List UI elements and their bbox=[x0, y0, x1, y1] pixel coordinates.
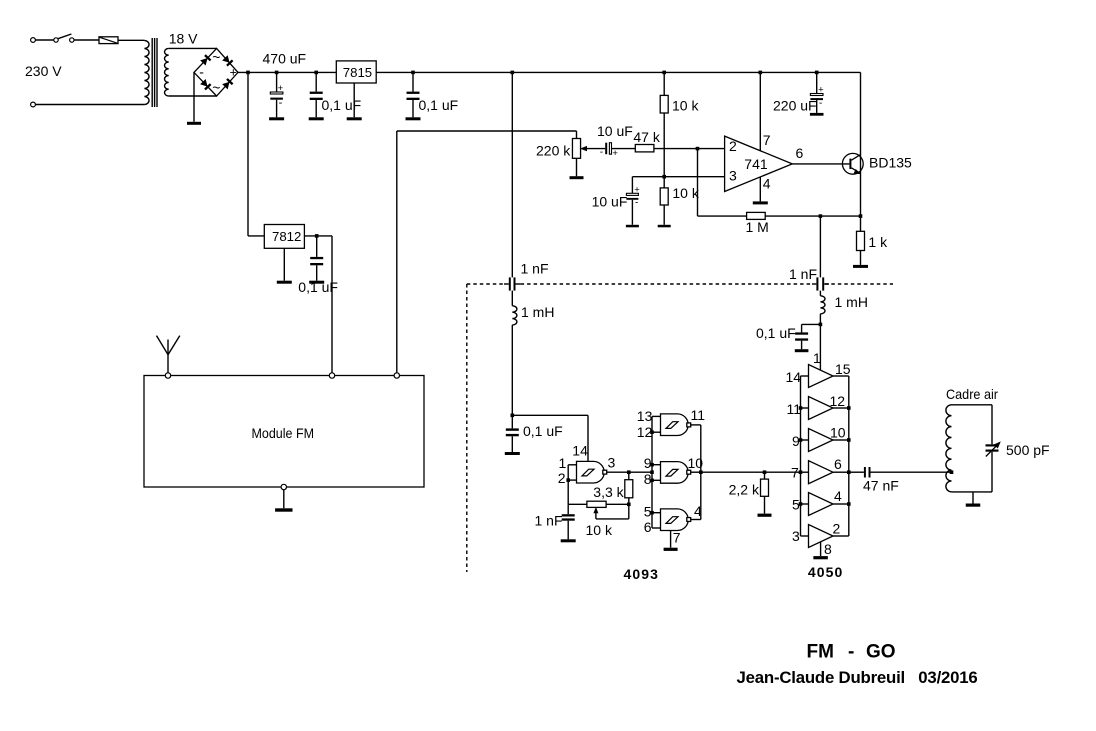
wire bbox=[606, 503, 629, 505]
ground bbox=[664, 548, 678, 551]
ground bbox=[505, 452, 520, 455]
wire 7812 out to Module FM bbox=[331, 236, 333, 373]
svg-text:-: - bbox=[819, 98, 822, 109]
wire bbox=[698, 215, 747, 217]
wire pin 1 stub bbox=[568, 464, 576, 466]
svg-text:+: + bbox=[634, 185, 640, 196]
resistor 2,2 k bbox=[761, 479, 769, 496]
node rail / C2 0,1uF bbox=[411, 71, 415, 75]
capacitor 0,1 uF (7812 out) bbox=[310, 236, 323, 281]
svg-text:8: 8 bbox=[644, 471, 652, 487]
terminal 230V bottom bbox=[31, 102, 36, 107]
wire 7812 ground pin bbox=[283, 248, 285, 280]
svg-text:4050: 4050 bbox=[808, 564, 844, 580]
buffer U2f 4050 bbox=[809, 525, 834, 548]
wire pin 7 ground bbox=[670, 531, 672, 548]
wire input stub buffer 1 bbox=[801, 375, 809, 377]
wire 7815 ground pin bbox=[353, 83, 355, 117]
ground bbox=[795, 349, 809, 352]
wire output stub buffer 2 bbox=[833, 407, 849, 409]
svg-text:1: 1 bbox=[559, 455, 567, 471]
wire input stub top gate 3 bbox=[652, 464, 661, 466]
svg-text:+: + bbox=[818, 85, 824, 96]
svg-text:0,1 uF: 0,1 uF bbox=[756, 325, 796, 341]
svg-text:1 nF: 1 nF bbox=[535, 513, 563, 529]
node pin3 divider bbox=[662, 175, 666, 179]
svg-text:9: 9 bbox=[792, 433, 800, 449]
wire bbox=[576, 158, 578, 176]
wire bbox=[663, 205, 665, 225]
op-amp 741 bbox=[725, 136, 793, 191]
wire varcap bottom bbox=[991, 452, 993, 492]
NAND gate U1c 4093 bbox=[661, 462, 691, 484]
wire bbox=[169, 47, 217, 49]
wire bbox=[860, 216, 862, 231]
transformer T1 core bbox=[152, 38, 157, 107]
ground bbox=[853, 265, 868, 268]
svg-text:4: 4 bbox=[694, 503, 702, 519]
ground bbox=[277, 281, 292, 284]
svg-text:1 nF: 1 nF bbox=[521, 261, 549, 277]
svg-text:0,1 uF: 0,1 uF bbox=[322, 97, 362, 113]
node 0,1uF tap bbox=[819, 323, 823, 327]
node rail / C 470uF bbox=[275, 71, 279, 75]
wire output stub buffer 5 bbox=[833, 503, 849, 505]
wire 47nF to cadre tap bbox=[871, 471, 952, 473]
ground bbox=[275, 508, 292, 511]
svg-text:7: 7 bbox=[763, 132, 771, 148]
node rail / 10k top bbox=[662, 71, 666, 75]
wire bbox=[576, 131, 578, 139]
wire output pin 11 bbox=[691, 424, 701, 426]
svg-text:2: 2 bbox=[558, 470, 566, 486]
wire bbox=[118, 39, 144, 41]
svg-text:GO: GO bbox=[866, 641, 896, 662]
svg-text:10: 10 bbox=[830, 425, 846, 441]
svg-text:+: + bbox=[230, 66, 237, 80]
NAND gate U1a 4093 bbox=[577, 461, 607, 483]
node rail / C1 0,1uF bbox=[314, 71, 318, 75]
wire rail to 10k bbox=[663, 72, 665, 95]
svg-text:5: 5 bbox=[792, 497, 800, 513]
svg-text:9: 9 bbox=[644, 455, 652, 471]
capacitor 1 nF feedthrough (right) bbox=[812, 277, 829, 290]
svg-text:10 k: 10 k bbox=[672, 97, 699, 113]
svg-text:Jean-Claude Dubreuil: Jean-Claude Dubreuil bbox=[737, 668, 906, 687]
wire 4050 input bus bbox=[800, 376, 802, 536]
capacitor 10 uF (series) bbox=[600, 143, 619, 160]
svg-text:12: 12 bbox=[830, 393, 846, 409]
ground bbox=[269, 117, 284, 120]
inductor 1 mH (right) bbox=[820, 296, 825, 314]
fuse F1 bbox=[99, 37, 118, 44]
svg-text:3,3 k: 3,3 k bbox=[593, 484, 624, 500]
svg-text:230 V: 230 V bbox=[25, 63, 62, 79]
svg-text:8: 8 bbox=[824, 541, 832, 557]
svg-text:0,1 uF: 0,1 uF bbox=[419, 97, 459, 113]
resistor 10 k (lower) bbox=[660, 188, 668, 205]
wire bbox=[35, 104, 144, 106]
wire bbox=[587, 415, 589, 461]
capacitor 220 uF bbox=[810, 72, 824, 113]
svg-text:~: ~ bbox=[212, 49, 220, 65]
node 4050 input bus bbox=[799, 406, 803, 410]
svg-text:7812: 7812 bbox=[272, 229, 301, 244]
ground bbox=[309, 281, 324, 284]
svg-text:4093: 4093 bbox=[624, 566, 660, 582]
wire wiper tie bbox=[596, 518, 629, 520]
node 4050 output bus bbox=[847, 438, 851, 442]
wire input stub buffer 2 bbox=[801, 407, 809, 409]
wire bbox=[628, 498, 630, 505]
buffer U2a 4050 bbox=[809, 365, 834, 388]
svg-text:1 M: 1 M bbox=[746, 219, 769, 235]
node 3,3k / 10k wiper bbox=[627, 503, 631, 507]
ground bbox=[758, 514, 772, 517]
wire input stub top gate 2 bbox=[652, 415, 661, 417]
wire pin 8 ground bbox=[820, 542, 822, 556]
shield dashed line middle bbox=[521, 283, 812, 285]
svg-text:10 k: 10 k bbox=[672, 185, 699, 201]
svg-text:14: 14 bbox=[786, 369, 802, 385]
node input bus bbox=[650, 479, 654, 483]
wire bbox=[628, 504, 630, 519]
svg-text:1 mH: 1 mH bbox=[835, 294, 868, 310]
switch S1 bbox=[54, 34, 74, 42]
shield dashed line left bbox=[467, 283, 504, 285]
inductor 1 mH (left) bbox=[512, 306, 517, 325]
node pin2 / feedback RC bbox=[566, 478, 570, 482]
diode D4 bridge bottom-right bbox=[222, 79, 233, 90]
svg-text:2,2 k: 2,2 k bbox=[729, 481, 760, 497]
node 2,2k bbox=[763, 470, 767, 474]
svg-text:6: 6 bbox=[834, 456, 842, 472]
wire input stub buffer 3 bbox=[801, 439, 809, 441]
svg-text:47 k: 47 k bbox=[633, 129, 660, 145]
terminal Module FM supply bbox=[329, 373, 334, 378]
wire bridge minus to ground bbox=[193, 72, 195, 121]
svg-text:6: 6 bbox=[644, 519, 652, 535]
ground bbox=[753, 201, 768, 204]
wire bbox=[628, 472, 630, 480]
wire bbox=[765, 215, 860, 217]
node 4050 output bus bbox=[847, 470, 851, 474]
svg-text:10 k: 10 k bbox=[586, 522, 613, 538]
svg-text:10 uF: 10 uF bbox=[592, 193, 628, 209]
capacitor 0,1 uF (rail #1) bbox=[310, 72, 323, 117]
svg-text:-: - bbox=[600, 147, 603, 158]
svg-text:220 uF: 220 uF bbox=[773, 98, 817, 114]
capacitor 47 nF bbox=[849, 467, 871, 478]
wire bbox=[169, 95, 217, 97]
capacitor 470 uF bbox=[270, 72, 283, 117]
node input bus bbox=[650, 511, 654, 515]
diode D1 bridge top-left bbox=[200, 55, 211, 66]
svg-text:1 k: 1 k bbox=[868, 234, 888, 250]
buffer U2d 4050 bbox=[809, 461, 834, 484]
wire input stub bottom gate 4 bbox=[652, 527, 661, 529]
trimmer 10 k bbox=[587, 501, 606, 519]
svg-text:FM: FM bbox=[807, 641, 834, 662]
buffer U2e 4050 bbox=[809, 493, 834, 516]
node rail / pin7 bbox=[759, 71, 763, 75]
terminal Module FM antenna bbox=[165, 373, 170, 378]
regulator 7812 bbox=[264, 225, 304, 249]
wire bbox=[612, 148, 636, 150]
node rail / 7812 branch bbox=[246, 71, 250, 75]
svg-text:3: 3 bbox=[792, 528, 800, 544]
shield dashed line right bbox=[825, 283, 893, 285]
node input bus bbox=[650, 430, 654, 434]
resistor 3,3 k bbox=[625, 480, 633, 498]
ground bbox=[813, 556, 828, 559]
wire input stub bottom gate 2 bbox=[652, 431, 661, 433]
svg-text:220 k: 220 k bbox=[536, 143, 571, 159]
capacitor 0,1 uF (4093 supply) bbox=[506, 415, 519, 452]
wire rail down to feedthrough bbox=[511, 72, 513, 277]
wire bbox=[248, 235, 264, 237]
svg-text:-: - bbox=[279, 97, 283, 109]
wire bbox=[511, 291, 513, 306]
wire output pin 4 bbox=[691, 519, 701, 521]
ground bbox=[347, 117, 362, 120]
resistor 1 M bbox=[747, 212, 766, 219]
wire rail left segment bbox=[238, 71, 336, 73]
svg-text:3: 3 bbox=[608, 454, 616, 470]
node 1M line / RF drop bbox=[819, 214, 823, 218]
capacitor 10 uF (pin3) bbox=[626, 177, 640, 225]
wire input stub buffer 5 bbox=[801, 503, 809, 505]
capacitor 1 nF (timing) bbox=[562, 504, 575, 539]
inductor cadre air coil bbox=[946, 405, 952, 492]
wire bbox=[74, 39, 99, 41]
wire rail right segment bbox=[376, 71, 860, 73]
svg-text:7: 7 bbox=[673, 530, 681, 546]
wire down to Module FM bbox=[396, 131, 398, 373]
wire op-amp output to base bbox=[792, 163, 849, 165]
ground bbox=[658, 225, 671, 228]
bridge rectifier outline bbox=[194, 48, 238, 96]
node output bus bbox=[699, 470, 703, 474]
wire input stub top gate 4 bbox=[652, 512, 661, 514]
capacitor 0,1 uF (4050 supply) bbox=[795, 324, 808, 349]
svg-text:2: 2 bbox=[833, 521, 841, 537]
wire output stub buffer 3 bbox=[833, 439, 849, 441]
svg-text:10: 10 bbox=[688, 455, 704, 471]
wire output stub buffer 1 bbox=[833, 375, 849, 377]
svg-text:1 nF: 1 nF bbox=[789, 266, 817, 282]
NAND gate U1d 4093 bbox=[661, 509, 691, 531]
svg-text:BD135: BD135 bbox=[869, 155, 912, 171]
diode D3 bridge bottom-left bbox=[200, 79, 211, 90]
capacitor 0,1 uF (rail #2) bbox=[407, 72, 420, 117]
node pin3 / 3,3k bbox=[627, 470, 631, 474]
node rail / left drop bbox=[511, 71, 515, 75]
wire bbox=[860, 251, 862, 265]
ground bbox=[810, 113, 824, 116]
ground bbox=[626, 225, 639, 228]
svg-text:+: + bbox=[612, 148, 618, 159]
svg-text:3: 3 bbox=[729, 168, 737, 184]
svg-text:741: 741 bbox=[744, 156, 768, 172]
svg-text:500 pF: 500 pF bbox=[1006, 442, 1050, 458]
node 4050 input bus bbox=[799, 438, 803, 442]
resistor 47 k bbox=[635, 145, 654, 152]
svg-text:~: ~ bbox=[212, 79, 220, 95]
wire bbox=[764, 472, 766, 479]
svg-text:2: 2 bbox=[729, 138, 737, 154]
wire pin 4 to ground bbox=[759, 177, 761, 201]
buffer U2c 4050 bbox=[809, 429, 834, 452]
svg-text:4: 4 bbox=[763, 176, 771, 192]
svg-text:10 uF: 10 uF bbox=[597, 123, 633, 139]
node 7812 out / C 0,1uF bbox=[315, 234, 319, 238]
svg-text:11: 11 bbox=[691, 407, 706, 423]
wire input stub buffer 4 bbox=[801, 471, 809, 473]
resistor 1 k bbox=[857, 231, 865, 250]
wire bbox=[663, 113, 665, 177]
wire cadre top bbox=[952, 404, 993, 406]
svg-text:15: 15 bbox=[835, 361, 851, 377]
svg-text:7815: 7815 bbox=[343, 65, 372, 80]
node input bus bbox=[650, 463, 654, 467]
wire to 4050 pin 7 bbox=[701, 471, 801, 473]
wire bbox=[764, 496, 766, 513]
wire 1M node down to feedthrough bbox=[819, 216, 821, 277]
wire RC node bbox=[568, 503, 587, 505]
terminal Module FM audio bbox=[394, 373, 399, 378]
wire 7812 output bbox=[304, 235, 332, 237]
variable capacitor 500 pF bbox=[986, 441, 1001, 456]
wire op-amp pin 3 bbox=[632, 176, 724, 178]
capacitor 1 nF feedthrough (left) bbox=[504, 277, 521, 290]
wire 4050 output bus bbox=[848, 376, 850, 536]
wire 4093 output bus bbox=[700, 425, 702, 520]
wire pin2 to RC node bbox=[567, 480, 569, 504]
wire cadre ground bbox=[972, 492, 974, 504]
ground bbox=[406, 117, 421, 120]
svg-text:0,1 uF: 0,1 uF bbox=[523, 423, 563, 439]
wire output stub buffer 6 bbox=[833, 535, 849, 537]
wire bbox=[511, 325, 513, 415]
svg-text:470 uF: 470 uF bbox=[263, 51, 307, 67]
wire bbox=[802, 323, 821, 325]
shield dashed line vertical bbox=[466, 284, 468, 572]
svg-text:12: 12 bbox=[637, 424, 653, 440]
wire to 7812 input bbox=[247, 72, 249, 236]
wire to 4093 pin 14 bbox=[512, 414, 588, 416]
ground bbox=[309, 117, 324, 120]
buffer U2b 4050 bbox=[809, 397, 834, 420]
svg-text:+: + bbox=[278, 83, 284, 94]
node input bus / gate1 out bbox=[650, 470, 654, 474]
wire output stub buffer 4 bbox=[833, 471, 849, 473]
potentiometer 220 k bbox=[572, 139, 580, 159]
title FM - GO bbox=[807, 641, 896, 662]
module FM box bbox=[144, 376, 424, 488]
caption author bbox=[737, 668, 978, 687]
node 4050 input bus bbox=[799, 470, 803, 474]
svg-text:18 V: 18 V bbox=[169, 30, 198, 46]
wire cadre bottom bbox=[952, 491, 993, 493]
wire to op-amp pin 2 bbox=[654, 148, 725, 150]
wire feedback down bbox=[697, 149, 699, 217]
terminal Module FM ground bbox=[281, 484, 286, 489]
resistor 10 k (upper) bbox=[660, 95, 668, 113]
node 4050 output bus bbox=[847, 406, 851, 410]
wire bbox=[35, 39, 53, 41]
wire pin 2 stub bbox=[568, 479, 576, 481]
wire pins 1-2 tie bbox=[567, 465, 569, 480]
svg-text:-: - bbox=[635, 197, 638, 208]
wire output pin 10 bbox=[691, 471, 701, 473]
svg-text:4: 4 bbox=[834, 488, 842, 504]
wire 4093 input bus bbox=[651, 416, 653, 528]
svg-text:03/2016: 03/2016 bbox=[918, 668, 977, 687]
svg-text:Module FM: Module FM bbox=[252, 425, 315, 441]
svg-text:13: 13 bbox=[637, 408, 653, 424]
NAND gate U1b 4093 bbox=[661, 414, 691, 436]
wire input stub bottom gate 3 bbox=[652, 479, 661, 481]
svg-text:1: 1 bbox=[813, 350, 821, 366]
regulator 7815 bbox=[336, 61, 376, 83]
wire Module FM ground bbox=[283, 490, 285, 509]
transistor BD135 bbox=[842, 153, 863, 174]
ground bbox=[561, 539, 576, 542]
node pin2 / feedback bbox=[696, 147, 700, 151]
svg-text:-: - bbox=[199, 63, 204, 79]
wiper arrow 220 k bbox=[580, 146, 605, 151]
wire collector / emitter bbox=[860, 72, 862, 216]
diode D2 bridge top-right bbox=[222, 55, 233, 66]
wire Module FM audio out bbox=[397, 130, 577, 132]
antenna bbox=[157, 336, 180, 373]
terminal 230V top bbox=[31, 38, 36, 43]
svg-text:14: 14 bbox=[572, 443, 588, 459]
wire bbox=[663, 177, 665, 188]
node emitter / 1k / 1M bbox=[859, 214, 863, 218]
wire gate output pin 3 bbox=[607, 471, 652, 473]
transformer T1 secondary bbox=[164, 48, 168, 96]
node rail / C 220uF bbox=[815, 71, 819, 75]
node 4050 input bus bbox=[799, 502, 803, 506]
svg-text:11: 11 bbox=[787, 401, 802, 417]
wire pin 7 to rail bbox=[759, 72, 761, 150]
svg-text:7: 7 bbox=[791, 465, 799, 481]
svg-text:-: - bbox=[848, 641, 854, 662]
svg-text:47 nF: 47 nF bbox=[863, 478, 899, 494]
node 4050 output bus bbox=[847, 502, 851, 506]
svg-text:Cadre air: Cadre air bbox=[946, 386, 998, 402]
wire varcap top bbox=[991, 405, 993, 445]
svg-text:5: 5 bbox=[644, 503, 652, 519]
node cadre tap bbox=[950, 470, 954, 474]
wire to 4050 pin 1 bbox=[819, 314, 821, 371]
svg-text:1 mH: 1 mH bbox=[521, 304, 554, 320]
ground bbox=[966, 504, 981, 507]
transformer T1 primary bbox=[144, 41, 149, 105]
ground bbox=[570, 176, 584, 179]
wire input stub buffer 6 bbox=[801, 535, 809, 537]
ground bbox=[187, 122, 201, 125]
wire bbox=[819, 291, 821, 296]
svg-text:6: 6 bbox=[796, 145, 804, 161]
node left drop / 0,1uF / 4093 supply bbox=[511, 414, 515, 418]
